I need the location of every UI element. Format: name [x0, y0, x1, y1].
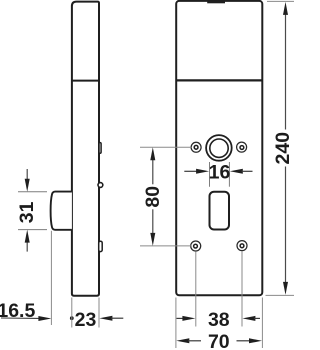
chain dimension dot	[70, 316, 74, 320]
dimension 23 extension line left	[71, 298, 73, 328]
dimension 16 extension line right	[228, 162, 230, 187]
top-right screw hole	[237, 142, 247, 152]
svg-text:70: 70	[208, 331, 230, 350]
dimension 38 left arrowhead	[182, 316, 195, 321]
dimension 31 lower dim line	[26, 242, 28, 252]
dimension 80 top arrowhead	[150, 147, 155, 160]
side view pin circle	[98, 183, 103, 188]
side view faceplate divider	[72, 80, 99, 82]
dimension 70 extension line left	[175, 298, 177, 349]
dimension 31 extension line top	[18, 191, 47, 193]
keyhole slot	[210, 192, 230, 230]
svg-text:38: 38	[208, 309, 230, 331]
cylinder outer ring	[206, 135, 232, 161]
svg-text:80: 80	[142, 186, 164, 208]
svg-text:31: 31	[16, 201, 38, 223]
bottom-left screw hole	[191, 241, 201, 251]
side view thumbturn knob	[51, 192, 72, 230]
svg-text:16: 16	[209, 161, 231, 183]
dimension 70 right arrow tail	[237, 340, 251, 342]
front view faceplate divider	[176, 79, 262, 81]
svg-text:23: 23	[75, 309, 97, 331]
dimension 31 lower arrowhead	[25, 230, 30, 243]
dimension 31 upper arrowhead	[25, 179, 30, 192]
dimension 80 dim line upper	[152, 160, 154, 185]
knob face extension line	[50, 231, 52, 325]
dimension 16.5 leader line	[1, 317, 40, 319]
dimension 16 extension line left	[209, 162, 211, 187]
dimension 80 dim line lower	[152, 209, 154, 233]
dimension 240 dim line lower	[285, 167, 287, 283]
dimension 80 extension line top	[140, 146, 191, 148]
side view body	[72, 2, 99, 296]
dimension 70 left arrowhead	[176, 338, 189, 343]
dimension 38 left arrow tail	[177, 317, 185, 319]
dimension 38 right arrow tail	[254, 317, 260, 319]
bottom-right screw hole	[237, 241, 247, 251]
dimension 70 extension line right	[261, 298, 263, 349]
dimension 16 right arrow tail	[242, 170, 253, 172]
dimension 16 right arrowhead	[230, 169, 243, 174]
dimension 80 bottom arrowhead	[150, 233, 155, 246]
dimension 240 top arrowhead	[283, 2, 288, 15]
dimension 16 left arrow tail	[184, 170, 197, 172]
dimension 70 right arrowhead	[249, 338, 262, 343]
dimension 38 extension line right	[241, 251, 243, 327]
svg-text:240: 240	[272, 132, 294, 165]
side view cylinder bump	[99, 143, 101, 154]
dimension 38 extension line left	[195, 251, 197, 326]
dimension 240 bottom arrowhead	[283, 282, 288, 295]
dimension 16 left arrowhead	[196, 169, 209, 174]
dimension 240 extension line top	[267, 0, 294, 2]
dimension 16.5 arrowhead	[38, 316, 51, 321]
front view top tab	[207, 0, 225, 3]
dimension 31 extension line bottom	[18, 229, 47, 231]
dimension 23 arrowhead	[99, 316, 112, 321]
dimension 240 extension line bottom	[266, 294, 295, 296]
cylinder inner ring	[210, 139, 228, 157]
top-left screw hole	[191, 142, 201, 152]
side view lower bump	[99, 241, 103, 251]
dimension 38 right arrowhead	[242, 316, 255, 321]
dimension 240 dim line upper	[285, 14, 287, 130]
front view body	[176, 1, 262, 295]
dimension 70 left arrow tail	[188, 340, 201, 342]
dimension 31 upper dim line	[26, 169, 28, 180]
dimension 23 arrow tail	[111, 317, 123, 319]
dimension 80 extension line bottom	[140, 245, 191, 247]
dimension 23 extension line right	[98, 298, 100, 328]
